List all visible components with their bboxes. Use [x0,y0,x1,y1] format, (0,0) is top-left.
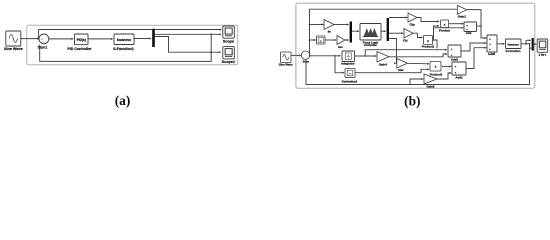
wire sine to Sum (b) [291,54,301,56]
label Product [439,28,450,32]
sink block Scope (b) [537,39,548,52]
label Gain6 [426,84,434,88]
wire kec to mux1 [345,39,349,41]
sum block Sum (b) [301,51,309,59]
node junction feedback to Gain6 [409,84,411,86]
svg-text:Add1: Add1 [451,58,459,62]
svg-text:Controller: Controller [364,43,377,47]
label Ckd [398,68,404,72]
wire Sum1 to PID Controller [49,38,74,40]
gain block Gain6 [424,74,437,84]
svg-text:Product1: Product1 [422,44,435,48]
wire stub to mux in1 [526,39,531,44]
gain block Ckd [397,59,408,69]
wire integrator branch to Add1 [365,49,447,56]
sink block Scope1 (a) [223,47,235,59]
label Gain2 [458,14,466,18]
wire Ckp to Product [417,18,439,23]
node junction integrator out [364,55,366,57]
wire mux to Scope input2 [155,33,222,35]
svg-text:ke: ke [328,30,332,34]
wire PID to S-Function1 [88,38,113,40]
wire feedback down (b) [305,44,530,85]
wire arrow into Sum1 [37,38,39,40]
wire feedback tap to Gain6 [410,78,424,85]
svg-text:(a): (a) [115,93,131,108]
wire mux3 to Scope (b) [534,43,537,45]
wire top reference line to Scope [39,29,222,31]
node junction add out [480,25,482,27]
label Product2 [430,72,443,76]
wire Sum output error line [310,55,341,57]
wire Product1 to Add1 region [433,40,438,48]
svg-text:×: × [427,39,429,43]
svg-text:Ckd: Ckd [398,68,404,72]
svg-text:kec: kec [338,45,343,49]
label Ckp [409,23,415,27]
svg-text:Ckp: Ckp [409,23,415,27]
adder block Add1 [448,45,461,57]
subsystem frame of diagram (a) [27,25,238,65]
wire Add2 to Add3 in3 [466,47,487,69]
subsystem frame of diagram (b) [296,3,535,88]
derivative block du/dt (b) [317,36,326,44]
wire demux to Ckp [389,16,408,18]
node junction feedback (b) [529,43,531,45]
wire Product1 line to Add in2 [434,27,464,29]
wire du/dt to kec [325,39,337,41]
svg-text:Integrator: Integrator [341,62,355,66]
svg-text:Sine Wave: Sine Wave [279,62,293,66]
product block Product2 [430,62,441,72]
label Derivative1 [342,79,358,83]
derivative block Derivative1 [345,69,355,78]
adder block Add [464,22,477,32]
label PID Controller [67,47,92,51]
gain block kec [337,36,345,45]
svg-text:×: × [435,65,437,69]
wire Add out join [477,25,482,27]
svg-text:Add: Add [466,31,472,35]
wire Product2 to Add2 [442,65,452,67]
wire riser to ke gain [310,23,324,25]
mux block before scope (b) [532,38,534,51]
integrator block Integrator [342,51,355,62]
svg-text:Scope1: Scope1 [222,60,236,64]
wire demux to Cki [389,32,404,34]
svg-text:Product2: Product2 [430,72,443,76]
wire Integrator to Gain4 [355,55,377,57]
caption (a) [115,93,131,108]
wire kuanmo out (b) [521,43,531,45]
node junction ke feed [309,24,311,26]
svg-text:Gain4: Gain4 [379,62,387,66]
svg-text:Cki: Cki [403,39,408,43]
node junction Product1 out [433,39,435,41]
svg-text:kuanmo: kuanmo [117,38,132,42]
node junction at sine branch [38,38,40,40]
label S-Function1 [113,47,134,51]
label Sine Wave (b) [279,62,293,66]
controller block PID Controller [75,34,89,45]
svg-text:q dq e: q dq e [539,54,547,57]
svg-text:Sine Wave: Sine Wave [4,47,23,51]
source block Sine Wave (b) [281,52,292,63]
node junction on top line at mux [153,29,155,31]
adder block Add2 [452,62,466,75]
mux block (a) [152,29,155,47]
label ke [328,30,332,34]
label kec [338,45,343,49]
label Add [466,31,472,35]
gain block ke [324,20,334,30]
svg-text:(b): (b) [404,93,420,108]
label Add1 [451,58,459,62]
gain block Gain2 [457,5,466,14]
wire Add1 to Add3 in2 [461,42,487,51]
wire Fuzzy to demux [381,30,386,32]
label Integrator [341,62,355,66]
wire riser to derivative du/dt [310,39,317,41]
sum block Sum1 [39,34,49,44]
label Cki [403,39,408,43]
wire stub to mux in3 [529,47,531,49]
svg-text:Add2: Add2 [455,75,463,79]
wire Sine Wave to Sum1 [21,38,39,40]
svg-text:S-Function1: S-Function1 [113,47,134,51]
gain block Cki [404,29,413,39]
block S-Function kuanmo (b) [506,39,522,49]
svg-text:Derivative1: Derivative1 [342,79,358,83]
caption (b) [404,93,420,108]
node junction du/dt feed [309,39,311,41]
wire branch to Derivative1 [335,56,345,74]
svg-text:−: − [43,40,45,44]
gain block Ckp [408,13,417,22]
adder block Add3 [487,35,497,52]
svg-text:PID Controller: PID Controller [67,47,92,51]
product block Product [441,20,449,28]
source block Sine Wave (a) [6,31,21,46]
label Fuzzy Logic Controller [363,41,379,48]
label S-Function (b) [505,49,520,53]
node junction on Scope1 line [210,51,212,53]
node junction feedback tap [210,33,212,35]
wire demux to Ckd [389,39,397,65]
label scope signals (b) [539,54,547,57]
wire Gain2 wrap to Add3 in1 [467,10,487,39]
svg-text:PID(s): PID(s) [77,38,86,42]
demux block after fuzzy [387,18,389,41]
svg-text:Gain2: Gain2 [458,14,466,18]
wire Product to Add in1 [449,23,464,25]
wire mux to Scope1 [155,37,221,54]
wire Gain6 to Add2 [437,72,452,79]
label Add3 [488,52,496,56]
node riser junction on error line [309,55,311,57]
wire top error line to Gain2 [310,8,457,10]
label Sine Wave (a) [4,47,23,51]
label Gain4 [379,62,387,66]
sink block Scope (a) [223,26,235,38]
label Add2 [455,75,463,79]
wire error riser x=309.5 [309,9,311,56]
svg-text:kuanmo: kuanmo [507,42,519,46]
label Scope1 (a) [222,60,236,64]
svg-text:×: × [444,23,446,27]
product block Product1 [424,36,433,45]
wire kuanmo to mux (a) [134,37,152,39]
gain block Gain4 [377,52,389,63]
wire Ckd to Product2 [408,63,430,65]
node junction plant out (b) [525,43,527,45]
label Sum (b) [303,60,310,64]
node junction derivative feed [334,55,336,57]
block S-Function1 kuanmo (a) [114,34,134,45]
svg-text:Scope: Scope [223,40,234,44]
label Sum1 [38,45,48,49]
wire ke to mux1 [334,23,349,25]
label Scope (a) [223,40,234,44]
wire feedback loop (a) [39,34,212,61]
wire branch riser to top line [38,30,40,39]
label Product1 [422,44,435,48]
svg-text:Product: Product [439,28,450,32]
block Fuzzy Logic Controller [360,24,381,41]
mux block before fuzzy [350,22,352,43]
wire Gain4 to Add1 in2 [389,53,447,57]
wire Product1 branch to Product in2 [434,25,440,40]
svg-text:Add3: Add3 [488,52,496,56]
wire Add3 to kuanmo [497,43,505,45]
svg-text:S-Function: S-Function [505,49,520,53]
wire Cki to Product1 [413,33,423,38]
wire Derivative1 to Product2 in2 [355,68,429,72]
wire mux1 to Fuzzy [352,30,360,32]
